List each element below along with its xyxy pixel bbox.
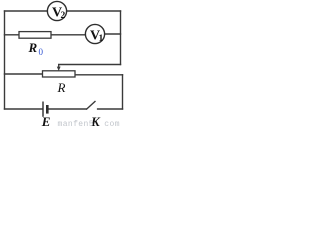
wire row2 left (rail to R0)	[5, 34, 20, 36]
rheostat R	[43, 65, 76, 96]
battery E	[41, 102, 51, 130]
wire battery to switch	[49, 108, 87, 110]
wire lower right rail	[122, 75, 124, 109]
wire rheostat left (rail to R)	[5, 73, 43, 75]
wire top-right (V2 to right rail)	[67, 10, 121, 12]
svg-text:R: R	[57, 80, 66, 95]
svg-text:0: 0	[39, 47, 44, 57]
wire top-left (battery + to V2)	[5, 10, 48, 12]
wire rheostat right (R to lower right rail)	[75, 74, 123, 76]
wire slider tap (to right rail)	[59, 64, 121, 66]
slider arrow	[58, 65, 60, 69]
switch K	[86, 101, 101, 129]
voltmeter V2	[47, 1, 66, 21]
wire bottom right (switch to lower right rail)	[98, 108, 123, 110]
resistor R0	[19, 32, 51, 57]
wire row2 right (V1 to right rail)	[105, 33, 121, 35]
svg-text:manfen5. com: manfen5. com	[58, 120, 120, 129]
voltmeter V1	[85, 24, 104, 44]
wire bottom left (rail to battery)	[5, 108, 43, 110]
svg-text:R: R	[28, 40, 38, 55]
wire upper right rail (V2/V1/slider node)	[120, 11, 122, 65]
svg-text:E: E	[41, 114, 51, 129]
wire row2 mid (R0 to V1)	[51, 34, 85, 36]
svg-text:1: 1	[99, 34, 104, 44]
wire left rail	[4, 11, 6, 109]
svg-text:2: 2	[61, 11, 66, 21]
